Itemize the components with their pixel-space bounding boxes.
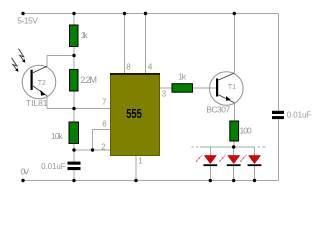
svg-text:1k: 1k [81,30,89,40]
svg-text:555: 555 [126,107,142,121]
svg-text:10k: 10k [51,131,64,141]
svg-text:1k: 1k [178,72,187,82]
svg-text:5-15V: 5-15V [17,16,38,26]
svg-text:BC307: BC307 [206,105,230,115]
svg-text:0.01uF: 0.01uF [41,162,66,171]
svg-text:1: 1 [138,156,143,165]
svg-text:T2: T2 [38,80,46,87]
svg-text:4: 4 [148,63,153,72]
svg-text:TIL81: TIL81 [26,98,48,108]
svg-text:0V: 0V [21,166,30,176]
svg-text:T1: T1 [228,84,236,91]
svg-text:0.01uF: 0.01uF [287,110,312,119]
svg-text:6: 6 [102,119,107,128]
svg-text:100: 100 [240,125,252,135]
svg-text:2: 2 [101,142,106,151]
svg-text:8: 8 [126,63,131,72]
svg-text:2.2M: 2.2M [80,75,97,85]
svg-text:7: 7 [102,97,107,106]
svg-text:3: 3 [162,90,167,99]
